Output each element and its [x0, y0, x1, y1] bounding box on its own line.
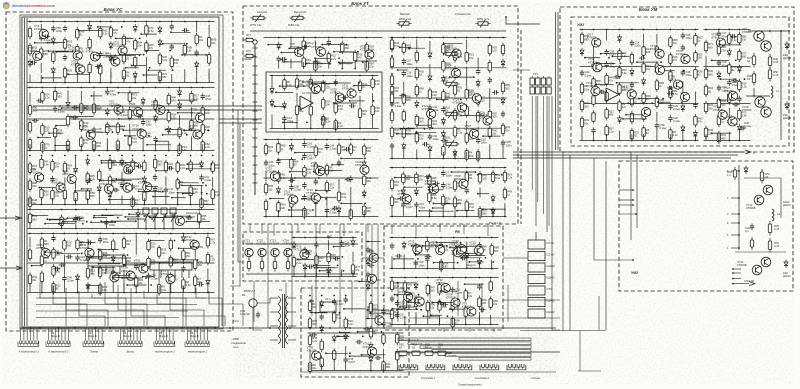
diode VD28	[89, 23, 91, 26]
resistor R88	[502, 81, 504, 84]
wire mains leads	[253, 307, 262, 330]
resistor R93	[478, 296, 480, 299]
wire column top	[41, 233, 43, 235]
wire column top	[383, 295, 385, 297]
wire column bottom	[290, 59, 292, 69]
diode VD14	[442, 75, 444, 78]
resistor R53	[396, 332, 398, 335]
svg-text:5,6к: 5,6к	[162, 58, 168, 62]
wire link	[306, 63, 326, 65]
resistor R42	[439, 299, 441, 302]
capacitor C16h	[364, 328, 367, 330]
svg-text:82: 82	[318, 150, 321, 154]
capacitor C14h	[479, 309, 482, 311]
svg-text:0,047: 0,047	[406, 205, 413, 209]
resistor R64	[53, 264, 55, 267]
resistor emitter	[261, 259, 263, 262]
resistor R82	[383, 359, 385, 362]
wire column bottom	[415, 207, 417, 216]
svg-text:КТ315Б: КТ315Б	[465, 127, 475, 131]
transistor VT2	[413, 245, 422, 254]
wire segment	[338, 179, 340, 189]
wire column bottom	[656, 128, 658, 141]
resistor R71	[391, 195, 393, 198]
wire column top	[89, 21, 91, 23]
rectifier stack	[528, 240, 545, 249]
diode VD16	[87, 157, 89, 160]
wire column top	[40, 21, 42, 23]
resistor R49	[61, 215, 63, 218]
transistor VT39	[193, 130, 202, 139]
diode VD9	[415, 188, 417, 191]
resistor R56	[328, 251, 330, 254]
resistor R56	[694, 114, 696, 117]
op-amp DA1	[606, 88, 619, 101]
svg-text:120: 120	[482, 301, 487, 305]
wire column bottom	[631, 134, 633, 141]
capacitor C31h	[136, 165, 139, 167]
wire column top	[682, 29, 684, 31]
wire rail	[580, 103, 699, 105]
wire rail	[704, 140, 751, 142]
wire column bottom	[171, 74, 173, 83]
wire column top	[670, 29, 672, 31]
resistor ladder	[391, 37, 393, 40]
resistor R47	[77, 238, 79, 241]
svg-text:КТ3102: КТ3102	[113, 44, 123, 48]
transistor VT output 4	[761, 107, 771, 117]
svg-text:680: 680	[90, 194, 95, 198]
wire column top	[479, 167, 481, 169]
capacitor C41h	[732, 79, 735, 81]
svg-text:Блок УС: Блок УС	[104, 7, 124, 12]
svg-text:К магнитный 1: К магнитный 1	[19, 350, 40, 354]
wire column bottom	[41, 281, 43, 293]
svg-text:Блок УТ: Блок УТ	[351, 1, 369, 6]
resistor R46	[129, 107, 131, 110]
capacitor C3h	[72, 106, 75, 108]
capacitor C38h	[399, 95, 402, 97]
resistor R5	[429, 117, 431, 120]
svg-text:КТ315Б: КТ315Б	[422, 107, 432, 111]
transistor VT29	[270, 172, 279, 181]
capacitor C51	[426, 256, 428, 258]
svg-text:КТ361В: КТ361В	[138, 180, 148, 184]
wire column top	[123, 21, 125, 23]
wire column bottom	[52, 74, 54, 83]
wire main bottom bus	[20, 327, 556, 329]
capacitor C2	[315, 179, 317, 182]
diode VD1	[502, 59, 504, 62]
wire segment	[271, 77, 273, 87]
wire link	[141, 33, 157, 35]
resistor R64	[87, 188, 89, 191]
wire column bottom	[53, 286, 55, 293]
resistor R33	[466, 199, 468, 202]
resistor R3	[705, 67, 707, 70]
transistor VT40	[474, 246, 483, 255]
svg-text:100н: 100н	[344, 244, 350, 248]
transistor VT7 center	[641, 107, 650, 116]
wire segment	[208, 69, 210, 79]
wire link	[160, 262, 177, 264]
wire link	[408, 301, 420, 303]
wire link	[107, 126, 125, 128]
wire link	[412, 245, 429, 247]
diode VD8	[328, 267, 330, 270]
capacitor C11	[303, 194, 305, 197]
wire column top	[42, 87, 44, 89]
wire rail	[308, 332, 404, 334]
resistor R14	[76, 61, 78, 64]
capacitor C31h	[424, 176, 427, 178]
wire column bottom	[593, 133, 595, 141]
wire column top	[61, 209, 63, 211]
wire rail	[390, 167, 507, 169]
capacitor C33	[669, 115, 671, 118]
svg-text:КЦ402: КЦ402	[547, 310, 556, 314]
wire link	[113, 162, 137, 164]
wire column top	[142, 87, 144, 89]
svg-text:680: 680	[721, 136, 726, 140]
svg-text:КТ361В: КТ361В	[106, 55, 116, 59]
wire UM down-left staircase	[513, 69, 530, 71]
wire rail	[704, 29, 751, 31]
capacitor C48	[391, 143, 393, 146]
svg-text:2,2мк: 2,2мк	[446, 186, 454, 190]
wire column top	[201, 155, 203, 157]
wire column bottom	[370, 362, 372, 370]
svg-text:0,15: 0,15	[774, 227, 780, 231]
resistor R99	[303, 206, 305, 209]
wire column bottom	[177, 198, 179, 205]
transistor VT33	[592, 38, 601, 47]
resistor R2	[315, 145, 317, 148]
capacitor C45	[77, 255, 79, 258]
wire link	[146, 50, 159, 52]
svg-text:82: 82	[732, 68, 735, 72]
resistor R96	[502, 43, 504, 46]
svg-text:120: 120	[432, 93, 437, 97]
wire column top	[117, 87, 119, 89]
transistor VT18	[627, 90, 636, 99]
diode VD22	[682, 125, 684, 128]
diode VD3	[454, 149, 456, 152]
wire column top	[112, 233, 114, 235]
wire link	[184, 130, 196, 132]
capacitor C60	[502, 111, 504, 114]
diode VD19	[416, 100, 418, 103]
transistor VT34	[457, 103, 466, 112]
resistor R91	[322, 114, 324, 117]
svg-text:360: 360	[197, 263, 202, 267]
svg-text:120: 120	[375, 109, 380, 113]
resistor R84	[391, 279, 393, 282]
resistor R85	[440, 242, 442, 245]
resistor R21	[366, 59, 368, 62]
capacitor C4	[315, 241, 317, 244]
svg-text:R751 13к: R751 13к	[250, 23, 262, 27]
svg-text:сети: сети	[233, 346, 239, 349]
resistor R24	[123, 51, 125, 54]
wire link	[122, 277, 143, 279]
wire column top	[158, 233, 160, 235]
wire rail	[28, 228, 215, 230]
wire link	[119, 118, 134, 120]
resistor R5	[581, 116, 583, 119]
capacitor C45	[429, 105, 431, 108]
wire link	[450, 308, 466, 310]
wire link	[320, 270, 333, 272]
wire column top	[466, 37, 468, 39]
capacitor C24h	[109, 58, 112, 60]
diode VD4	[290, 143, 292, 146]
svg-text:КТ315Б: КТ315Б	[307, 349, 317, 353]
resistor R22	[606, 107, 608, 110]
wire link	[395, 294, 412, 296]
diode VD11	[109, 190, 111, 193]
wire link	[350, 355, 370, 357]
wire column bottom	[359, 117, 361, 129]
svg-text:РВ: РВ	[455, 230, 460, 234]
resistor R69	[117, 139, 119, 142]
resistor R45	[442, 89, 444, 92]
wire link	[98, 248, 118, 250]
resistor R54	[99, 63, 101, 66]
capacitor C58h	[53, 268, 56, 270]
wire link	[464, 255, 486, 257]
wire column top	[309, 295, 311, 297]
svg-text:КТ361Б: КТ361Б	[283, 242, 293, 246]
wire column top	[123, 233, 125, 235]
svg-text:43: 43	[765, 175, 768, 179]
wire column bottom	[99, 73, 101, 82]
resistor R87	[41, 90, 43, 93]
resistor R79	[669, 52, 671, 55]
wire column bottom	[416, 149, 418, 158]
wire link	[172, 197, 186, 199]
wire link	[397, 133, 418, 135]
wire link	[50, 219, 66, 221]
resistor R24	[643, 108, 645, 111]
svg-text:360: 360	[698, 56, 703, 60]
diode VD30	[402, 188, 404, 191]
wire column top	[76, 21, 78, 23]
svg-text:360: 360	[492, 114, 497, 118]
svg-text:47мк: 47мк	[419, 205, 426, 209]
wire column top	[442, 167, 444, 169]
wire um2 col rail	[735, 251, 786, 253]
resistor R30	[109, 157, 111, 160]
capacitor C36h	[113, 189, 116, 191]
resistor R40	[466, 170, 468, 173]
wire link	[187, 168, 210, 170]
transistor VT7	[483, 116, 492, 125]
resistor R49	[439, 282, 441, 285]
wire link	[280, 85, 296, 87]
wire link	[68, 217, 84, 219]
wire column bottom	[415, 316, 417, 324]
block UT second dashed border	[520, 30, 522, 224]
svg-text:680: 680	[446, 95, 451, 99]
svg-text:220н: 220н	[635, 43, 641, 47]
wire column top	[321, 295, 323, 297]
resistor R31	[177, 160, 179, 163]
wire column bottom	[109, 198, 111, 205]
wire column bottom	[112, 279, 114, 293]
svg-text:В1: В1	[242, 293, 246, 297]
svg-text:360: 360	[394, 200, 399, 204]
wire segment	[326, 197, 328, 207]
wire link	[312, 82, 334, 84]
wire column bottom	[335, 122, 337, 129]
resistor R83	[452, 299, 454, 302]
resistor R38	[359, 106, 361, 109]
speckle over US	[10, 14, 230, 329]
transistor VT30	[110, 273, 119, 282]
capacitor C30h	[304, 252, 307, 254]
diode VD17	[367, 258, 369, 261]
resistor R38	[326, 163, 328, 166]
transistor VT8	[369, 253, 378, 262]
resistor R77	[705, 40, 707, 43]
resistor R69	[454, 108, 456, 111]
svg-text:82: 82	[126, 74, 129, 78]
wire column bottom	[202, 144, 204, 151]
capacitor C26h	[32, 120, 35, 122]
wire rail	[704, 103, 751, 105]
svg-text:КТ315Б: КТ315Б	[311, 164, 321, 168]
switch S3.1	[88, 258, 126, 266]
wire column top	[372, 75, 374, 77]
wire column top	[191, 87, 193, 89]
resistor R42	[134, 55, 136, 58]
diode VD5	[293, 241, 295, 244]
svg-text:5,6к: 5,6к	[215, 193, 221, 197]
wire link	[302, 198, 314, 200]
wire link	[394, 258, 414, 260]
svg-text:120: 120	[281, 206, 286, 210]
wire column bottom	[341, 270, 343, 277]
svg-text:Соединение: Соединение	[231, 341, 246, 345]
resistor R50	[335, 101, 337, 104]
resistor R88	[383, 332, 385, 335]
wire column bottom	[145, 71, 147, 83]
svg-text:360: 360	[469, 154, 474, 158]
wire column top	[354, 37, 356, 39]
resistor R52	[734, 167, 736, 170]
wire column top	[190, 155, 192, 157]
wire column top	[465, 277, 467, 279]
wire column bottom	[87, 286, 89, 293]
svg-text:2,2к: 2,2к	[507, 175, 513, 179]
diode VD16	[143, 176, 145, 179]
wire link	[623, 118, 647, 120]
resistor R92	[416, 67, 418, 70]
resistor R34	[309, 316, 311, 319]
transistor VT11	[118, 46, 127, 55]
wire column top	[454, 167, 456, 169]
svg-text:А1 К157УД2: А1 К157УД2	[302, 91, 317, 95]
wire segment	[75, 179, 77, 189]
svg-text:680: 680	[194, 123, 199, 127]
wire link	[39, 187, 55, 189]
transistor VT7	[190, 240, 199, 249]
wire column bottom	[466, 259, 468, 269]
wire link	[113, 277, 129, 279]
svg-text:Система 2: Система 2	[475, 376, 490, 380]
wire column bottom	[29, 222, 31, 229]
resistor R7	[669, 127, 671, 130]
svg-text:100н: 100н	[56, 29, 62, 33]
transistor VT6 center	[680, 92, 689, 101]
resistor R70	[454, 125, 456, 128]
resistor R82	[207, 252, 209, 255]
resistor R40	[333, 348, 335, 351]
wire um2 bottom link	[741, 283, 749, 285]
wire link	[289, 209, 306, 211]
resistor R56	[338, 143, 340, 146]
wire column top	[391, 167, 393, 169]
wire segment	[478, 312, 480, 322]
transistor VT32	[375, 316, 384, 325]
transistor VT13	[754, 195, 764, 205]
resistor R18	[440, 259, 442, 262]
diode VD18	[137, 210, 139, 213]
svg-text:100н: 100н	[146, 123, 152, 127]
resistor R50	[492, 170, 494, 173]
wire link	[154, 216, 166, 218]
wire column bottom	[123, 76, 125, 83]
transistor VT10	[457, 245, 466, 254]
wire rail	[264, 139, 379, 141]
svg-text:КТ315Б: КТ315Б	[80, 246, 90, 250]
diode VD11	[196, 61, 198, 64]
wire column bottom	[309, 364, 311, 371]
resistor R71	[303, 56, 305, 59]
resistor R23	[354, 50, 356, 53]
wire column top	[350, 139, 352, 141]
wire segment	[466, 121, 468, 131]
transistor VT30	[593, 63, 602, 72]
resistor R8	[265, 182, 267, 185]
svg-text:82: 82	[457, 89, 460, 93]
svg-text:К1.1: К1.1	[325, 297, 331, 301]
wire column top	[335, 75, 337, 77]
resistor R95	[41, 271, 43, 274]
resistor R86	[606, 73, 608, 76]
wire column top	[29, 209, 31, 211]
wire link	[68, 73, 90, 75]
wire column bottom	[132, 198, 134, 205]
capacitor C31	[751, 224, 753, 227]
resistor R84	[296, 77, 298, 80]
svg-text:0,15: 0,15	[773, 73, 779, 77]
wire rail	[270, 128, 379, 130]
resistor R23	[148, 256, 150, 258]
capacitor C2h	[492, 91, 495, 93]
wire rail	[28, 292, 215, 294]
resistor R79	[80, 118, 82, 121]
resistor R23	[403, 41, 405, 44]
wire column bottom	[426, 261, 428, 268]
capacitor C39h	[313, 61, 316, 63]
capacitor C12h	[368, 250, 371, 252]
capacitor C13h	[66, 256, 69, 258]
capacitor C4h	[614, 76, 617, 78]
wire column bottom	[179, 144, 181, 151]
capacitor C46	[54, 106, 56, 109]
